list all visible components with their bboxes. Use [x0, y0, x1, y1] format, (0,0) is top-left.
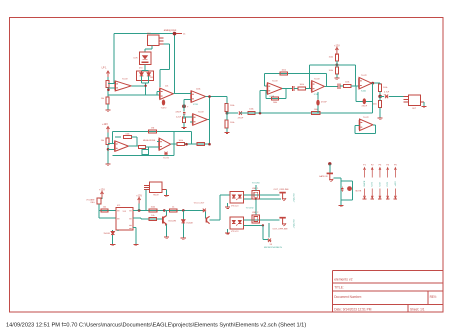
svg-text:IC4A: IC4A: [361, 90, 366, 93]
svg-text:VCO_OUT: VCO_OUT: [194, 202, 205, 204]
svg-text:100k: 100k: [329, 57, 333, 59]
svg-text:TL072: TL072: [272, 81, 279, 83]
svg-text:100k: 100k: [196, 89, 200, 91]
svg-text:TL072: TL072: [314, 79, 321, 81]
svg-text:470nF: 470nF: [238, 118, 244, 120]
svg-text:TO LED: TO LED: [252, 183, 260, 185]
svg-text:+12V: +12V: [102, 123, 108, 126]
svg-text:4.7uF: 4.7uF: [384, 92, 390, 94]
svg-text:100k: 100k: [314, 109, 318, 111]
svg-text:TL072: TL072: [363, 117, 370, 119]
svg-text:VTL5C3: VTL5C3: [231, 205, 239, 207]
svg-text:OUT_OFFLINE: OUT_OFFLINE: [272, 229, 288, 231]
svg-text:OUTPUT: OUTPUT: [292, 220, 294, 230]
svg-text:100k: 100k: [273, 102, 277, 104]
svg-text:elements v2: elements v2: [334, 278, 352, 282]
svg-text:100k: 100k: [300, 84, 304, 86]
svg-text:100k: 100k: [249, 109, 253, 111]
svg-text:470nF: 470nF: [175, 112, 181, 114]
svg-text:100k: 100k: [383, 87, 387, 89]
svg-text:LDR: LDR: [133, 58, 138, 60]
svg-text:1M: 1M: [151, 127, 154, 129]
svg-text:MUTE: MUTE: [356, 191, 362, 193]
svg-text:TL072: TL072: [163, 158, 170, 160]
svg-text:Document Number:: Document Number:: [334, 295, 362, 299]
svg-text:100k: 100k: [125, 133, 129, 135]
svg-text:100k: 100k: [345, 82, 349, 84]
svg-text:+12V: +12V: [136, 195, 142, 198]
svg-text:OUT_OFFLINE: OUT_OFFLINE: [273, 189, 289, 191]
svg-text:100k: 100k: [282, 70, 286, 72]
svg-text:IC5B: IC5B: [193, 104, 198, 106]
svg-text:BC547B: BC547B: [169, 221, 177, 223]
svg-text:REV:: REV:: [430, 295, 437, 299]
svg-text:100k: 100k: [230, 122, 234, 124]
svg-text:OUTPUT: OUTPUT: [292, 194, 294, 204]
svg-text:100k: 100k: [230, 105, 234, 107]
svg-text:10k: 10k: [165, 86, 168, 88]
svg-text:TL072: TL072: [161, 108, 168, 110]
svg-text:MEGA DRONE: MEGA DRONE: [143, 139, 156, 142]
svg-text:10k: 10k: [101, 98, 104, 100]
svg-text:470nF: 470nF: [361, 106, 367, 108]
svg-text:100k: 100k: [372, 104, 376, 106]
svg-text:10k: 10k: [151, 215, 154, 217]
svg-text:10k: 10k: [101, 140, 104, 142]
svg-text:2.2uF: 2.2uF: [176, 117, 182, 119]
svg-text:MICROPHONE IN: MICROPHONE IN: [264, 247, 282, 249]
svg-text:VTL5C3: VTL5C3: [231, 231, 239, 233]
svg-text:470nF: 470nF: [321, 102, 327, 104]
svg-text:TO LED: TO LED: [246, 208, 254, 210]
svg-text:TL072: TL072: [122, 79, 129, 81]
svg-text:100k: 100k: [329, 70, 333, 72]
svg-text:100k: 100k: [151, 206, 155, 208]
svg-text:1N4148: 1N4148: [186, 223, 192, 225]
svg-text:1/8: 1/8: [270, 244, 273, 246]
svg-text:Date: 9/14/2023 12:51 PM: Date: 9/14/2023 12:51 PM: [334, 307, 372, 311]
svg-text:GATE: GATE: [363, 180, 366, 186]
svg-text:Sheet: 1/1: Sheet: 1/1: [410, 307, 425, 311]
svg-text:REG: REG: [91, 202, 95, 204]
svg-text:TL072: TL072: [198, 112, 205, 114]
svg-text:+12V: +12V: [334, 45, 340, 48]
svg-text:+12V: +12V: [99, 189, 105, 192]
svg-text:1N4148: 1N4148: [104, 233, 110, 235]
svg-text:10k: 10k: [103, 206, 106, 208]
svg-text:78L09: 78L09: [153, 194, 159, 196]
svg-text:TITLE:: TITLE:: [334, 286, 344, 290]
svg-text:GATE IN: GATE IN: [319, 175, 328, 178]
svg-text:LED: LED: [150, 77, 154, 79]
svg-text:1k: 1k: [172, 206, 174, 208]
svg-text:LP 1: LP 1: [102, 67, 108, 70]
svg-text:14/09/2023 12:51 PM f=0.70 C: 14/09/2023 12:51 PM f=0.70 C:\Users\marc…: [6, 323, 306, 329]
svg-text:+12V: +12V: [395, 181, 397, 187]
svg-text:TL072: TL072: [361, 75, 368, 77]
svg-text:analog input: analog input: [164, 29, 177, 32]
svg-text:100k: 100k: [179, 140, 183, 142]
svg-text:LMP 2: LMP 2: [252, 212, 259, 214]
